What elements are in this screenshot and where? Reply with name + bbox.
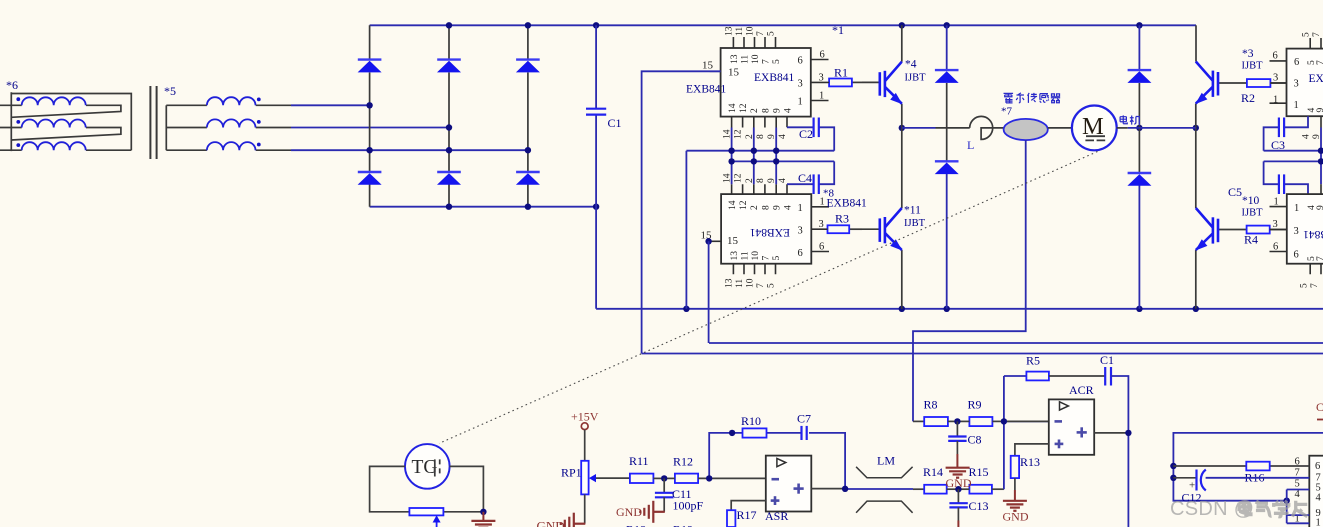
svg-text:C13: C13	[969, 499, 989, 513]
svg-text:B841: B841	[1303, 228, 1323, 240]
net wire to right edge	[1173, 433, 1323, 501]
svg-text:14: 14	[728, 200, 738, 210]
svg-text:4: 4	[783, 108, 793, 113]
svg-text:1: 1	[1294, 203, 1299, 214]
resistor R4	[1247, 226, 1270, 234]
U4 left pin stubs 1 3 6	[1270, 207, 1287, 252]
svg-text:12: 12	[734, 129, 744, 139]
resistor R5	[1004, 375, 1027, 377]
wire phase input row1	[0, 105, 121, 117]
svg-text:3: 3	[798, 79, 803, 90]
svg-text:R5: R5	[1026, 354, 1040, 368]
diode D4	[358, 172, 382, 185]
diode D2	[437, 60, 461, 73]
diode leg right wire	[1138, 25, 1140, 70]
svg-text:4: 4	[1316, 493, 1322, 504]
svg-text:6: 6	[1315, 461, 1320, 472]
ASR plus input wire	[731, 501, 766, 511]
diode D8	[935, 161, 959, 174]
svg-text:R17: R17	[737, 508, 757, 522]
resistor R1	[852, 81, 862, 83]
svg-text:5: 5	[772, 256, 782, 261]
watermark CSDN	[1170, 498, 1307, 520]
svg-text:EXB841: EXB841	[750, 226, 791, 238]
node dots bridge	[366, 22, 599, 210]
secondary row3 lead	[166, 149, 291, 151]
U1 top pin numbers outside	[725, 26, 777, 36]
transistor *10 IGBT	[1195, 195, 1263, 251]
wire motor to legs	[1117, 127, 1128, 129]
svg-text:R2: R2	[1241, 91, 1255, 105]
svg-text:R1: R1	[834, 66, 848, 80]
U1 bottom pin numbers outside	[723, 129, 788, 139]
svg-text:3: 3	[798, 226, 803, 237]
svg-text:7: 7	[1316, 256, 1323, 261]
capacitor C12 electrolytic	[1197, 470, 1206, 491]
core bars	[150, 86, 156, 159]
svg-text:R8: R8	[924, 398, 938, 412]
phase wire A to leg1	[291, 104, 370, 106]
svg-text:10: 10	[751, 251, 761, 261]
svg-text:8: 8	[761, 108, 771, 113]
U1 right pin stubs 6 3 1	[811, 60, 829, 101]
secondary row1 lead	[166, 104, 291, 106]
svg-text:9: 9	[1316, 108, 1323, 113]
svg-text:5: 5	[767, 31, 777, 36]
U3 bottom pin stubs	[1320, 116, 1322, 127]
svg-text:C: C	[1316, 400, 1323, 414]
svg-text:15: 15	[727, 235, 739, 247]
ASR feedback loop	[709, 433, 845, 489]
top rail right corner drop	[1195, 25, 1197, 61]
svg-text:R19: R19	[673, 523, 693, 527]
svg-text:C1: C1	[608, 116, 622, 130]
ACR output	[1094, 432, 1128, 434]
ASR output wire	[811, 488, 845, 490]
ground C8	[956, 441, 958, 454]
svg-text:LM: LM	[877, 454, 895, 468]
svg-text:10: 10	[746, 26, 756, 36]
long wire B	[642, 353, 1323, 355]
node dot TG	[480, 509, 486, 515]
svg-text:2: 2	[750, 108, 760, 113]
svg-text:6: 6	[798, 56, 803, 67]
svg-text:6: 6	[1273, 242, 1278, 253]
svg-text:8: 8	[761, 205, 771, 210]
capacitor C8	[956, 421, 958, 436]
svg-text:TG: TG	[412, 457, 438, 478]
svg-text:EXB841: EXB841	[686, 84, 727, 96]
wire phase input row3	[0, 149, 131, 151]
svg-text:*11: *11	[904, 205, 921, 217]
svg-text:R18: R18	[626, 523, 646, 527]
svg-text:1: 1	[1274, 197, 1279, 208]
svg-text:EXB841: EXB841	[754, 72, 795, 84]
polarity dot S3	[257, 143, 261, 147]
U4 top pin stub	[1320, 184, 1322, 194]
phase wire B to leg2	[291, 127, 449, 129]
hall sensor ellipse *7	[1004, 119, 1048, 140]
motor M circle	[1072, 106, 1117, 151]
svg-text:7: 7	[1310, 283, 1320, 288]
svg-text:IJBT: IJBT	[905, 73, 927, 84]
svg-text:6: 6	[1294, 57, 1299, 68]
svg-text:1: 1	[1316, 518, 1321, 527]
resistor R9	[969, 417, 992, 426]
IGBT leg right wire	[1195, 104, 1197, 309]
resistor R2	[1247, 79, 1271, 87]
op-amp ACR box	[1049, 399, 1094, 454]
wire phase input row2	[0, 128, 121, 141]
ground R13	[1014, 478, 1016, 490]
svg-text:3: 3	[819, 219, 824, 230]
op chip U2 EXB841 box (flipped)	[721, 194, 811, 264]
DC bottom rail	[596, 308, 1323, 310]
svg-text:10: 10	[746, 278, 756, 288]
svg-text:6: 6	[1294, 250, 1299, 261]
svg-text:R12: R12	[673, 455, 693, 469]
svg-text:+15V: +15V	[571, 410, 599, 424]
svg-text:11: 11	[741, 55, 751, 64]
svg-text:4: 4	[778, 134, 788, 139]
svg-text:12: 12	[734, 173, 744, 183]
svg-text:13: 13	[730, 251, 740, 261]
svg-text:15: 15	[728, 67, 740, 79]
winding P2	[22, 120, 86, 128]
mechanical coupling dashed line	[439, 152, 1097, 444]
diode D7	[935, 70, 959, 83]
svg-text:7: 7	[756, 31, 766, 36]
svg-text:13: 13	[730, 54, 740, 64]
winding S1	[207, 97, 256, 105]
resistor R8	[913, 420, 924, 422]
svg-text:1: 1	[1273, 95, 1278, 106]
svg-text:5: 5	[767, 283, 777, 288]
svg-text:11: 11	[735, 279, 745, 288]
U1 bottom pin numbers inside	[728, 103, 793, 113]
inductor L loop	[970, 116, 1004, 139]
U2 top pin numbers inside	[728, 200, 793, 210]
svg-text:GND: GND	[1003, 510, 1029, 524]
op chip U5 box (cut)	[1309, 456, 1323, 527]
diode D3	[516, 60, 540, 73]
bridge leg 1 wire	[369, 25, 371, 206]
svg-text:3: 3	[1294, 226, 1299, 237]
svg-text:1: 1	[1294, 100, 1299, 111]
capacitor C13	[957, 489, 959, 503]
diode D1	[358, 60, 382, 73]
transformer T1 primary frame	[11, 92, 131, 151]
svg-text:*4: *4	[905, 59, 917, 71]
secondary row2 lead	[166, 127, 291, 129]
pin6 wire with resistor R16	[1173, 465, 1246, 467]
svg-text:6: 6	[820, 50, 825, 61]
capacitor C3 loop	[1264, 116, 1308, 151]
U1 bottom pin stubs	[732, 117, 787, 128]
svg-text:7: 7	[756, 283, 766, 288]
label motor	[1120, 115, 1140, 124]
svg-text:L: L	[967, 138, 974, 152]
resistor R17	[727, 510, 735, 527]
winding S3	[207, 142, 256, 150]
wire U2 pin15 drop	[708, 241, 710, 343]
U2 top pin stubs	[732, 184, 787, 194]
svg-text:15: 15	[702, 60, 714, 72]
polarity dot S2	[257, 120, 261, 124]
U3 top pin stubs	[1310, 38, 1321, 49]
svg-text:11: 11	[741, 251, 751, 260]
svg-text:R14: R14	[923, 465, 943, 479]
freewheel leg left wire	[946, 25, 948, 70]
op chip U3 EXB841 box	[1287, 49, 1323, 117]
pin7 wire	[1206, 477, 1310, 479]
U2 bottom pin stubs	[733, 264, 775, 275]
capacitor C1b	[1105, 367, 1111, 386]
wire ACR plus input	[1015, 444, 1049, 456]
svg-text:4: 4	[778, 178, 788, 183]
capacitor C1 plates	[586, 109, 606, 115]
svg-text:*5: *5	[164, 84, 176, 98]
svg-text:6: 6	[1273, 51, 1278, 62]
svg-text:R9: R9	[968, 398, 982, 412]
svg-text:RP1: RP1	[561, 466, 582, 480]
svg-text:2: 2	[750, 205, 760, 210]
op-amp ASR box	[766, 456, 812, 512]
op chip U4 EXB841 box (flipped)	[1287, 194, 1323, 264]
resistor R3	[849, 228, 862, 230]
potentiometer RP2 body	[409, 508, 443, 515]
node dots C12 net	[1170, 463, 1290, 504]
svg-text:EXB: EXB	[1309, 73, 1323, 85]
label hall	[1004, 93, 1061, 103]
transistor *11 IGBT	[862, 205, 926, 251]
U2 top pin numbers outside	[723, 173, 788, 183]
U5 pin stub labels	[1295, 457, 1301, 525]
svg-text:100pF: 100pF	[673, 499, 704, 513]
svg-text:7: 7	[762, 256, 772, 261]
pin 4/9/1 bracket	[1287, 490, 1310, 524]
bridge leg 3 wire	[527, 25, 529, 206]
svg-text:*3: *3	[1242, 48, 1254, 60]
ground TG	[482, 512, 484, 521]
U3 left pin stubs 6 3 1	[1270, 61, 1287, 103]
winding P1	[22, 97, 86, 105]
svg-text:5: 5	[1301, 32, 1311, 37]
resistor R12	[675, 474, 698, 483]
polarity dot P1	[16, 97, 20, 101]
svg-text:4: 4	[1295, 489, 1301, 500]
svg-text:7: 7	[762, 59, 772, 64]
resistor R15	[969, 485, 992, 494]
svg-text:4: 4	[783, 205, 793, 210]
svg-text:GND: GND	[616, 505, 642, 519]
svg-text:R15: R15	[969, 465, 989, 479]
U2 right pin stubs 1 3 6	[811, 207, 829, 252]
U2 bottom pin numbers outside	[725, 278, 777, 288]
svg-text:R3: R3	[835, 212, 849, 226]
diode D9	[1127, 70, 1151, 83]
svg-text:13: 13	[725, 278, 735, 288]
bus row dots	[705, 148, 779, 245]
svg-text:GND: GND	[537, 519, 565, 527]
svg-text:R10: R10	[741, 414, 761, 428]
svg-text:3: 3	[1294, 79, 1299, 90]
svg-text:8: 8	[756, 134, 766, 139]
capacitor C5 loop	[1264, 161, 1308, 194]
pin bus verticals between U1/U2	[732, 128, 777, 185]
svg-text:R13: R13	[1020, 455, 1040, 469]
long wire A	[709, 342, 1323, 344]
right bus rows	[1264, 151, 1323, 162]
svg-text:9: 9	[773, 205, 783, 210]
svg-text:3: 3	[819, 73, 824, 84]
svg-text:1: 1	[819, 91, 824, 102]
DC top rail	[370, 24, 1196, 26]
svg-text:EXB841: EXB841	[827, 198, 868, 210]
svg-text:ACR: ACR	[1069, 383, 1094, 397]
op chip U1 EXB841 box	[721, 48, 811, 117]
svg-text:7: 7	[1312, 32, 1322, 37]
svg-text:4: 4	[1301, 134, 1311, 139]
svg-text:12: 12	[739, 200, 749, 210]
svg-text:8: 8	[756, 178, 766, 183]
svg-text:1: 1	[798, 203, 803, 214]
svg-text:R11: R11	[629, 454, 649, 468]
svg-text:C5: C5	[1228, 185, 1242, 199]
svg-text:C1: C1	[1100, 353, 1114, 367]
polarity dot S1	[257, 98, 261, 102]
bridge leg 2 wire	[448, 25, 450, 206]
U1 pin 15 stub	[710, 70, 721, 72]
svg-text:3: 3	[1273, 219, 1278, 230]
U1 top pin stubs	[733, 37, 775, 48]
svg-text:*7: *7	[1001, 106, 1013, 118]
diode D10	[1127, 173, 1151, 186]
svg-text:9: 9	[1316, 205, 1323, 210]
svg-text:ASR: ASR	[765, 509, 788, 523]
svg-text:3: 3	[1273, 73, 1278, 84]
svg-text:*1: *1	[832, 23, 844, 37]
bus row 1	[686, 151, 834, 309]
capacitor C1 leg wire	[595, 25, 597, 309]
resistor R10	[743, 428, 767, 437]
capacitor C11	[663, 478, 665, 492]
wire mid rail	[902, 127, 936, 129]
node dots H-bridge rails	[683, 22, 1199, 312]
wire hall feedback	[913, 140, 1026, 421]
wire hall to motor	[1048, 127, 1072, 129]
diode D5	[437, 172, 461, 185]
capacitor C7	[802, 426, 807, 440]
svg-text:IJBT: IJBT	[904, 218, 926, 229]
U1 top pin numbers inside	[730, 54, 782, 64]
TG loop wires	[370, 466, 484, 511]
svg-text:*6: *6	[6, 78, 18, 92]
diode D6	[516, 172, 540, 185]
U2 pin 15 stub	[709, 240, 722, 242]
svg-text:7: 7	[1295, 468, 1300, 479]
svg-text:5: 5	[772, 59, 782, 64]
svg-text:C2: C2	[799, 127, 813, 141]
U2 bottom pin numbers inside	[730, 251, 782, 261]
U4 bottom pin stubs	[1310, 264, 1321, 275]
svg-text:5: 5	[1299, 283, 1309, 288]
svg-text:9: 9	[773, 108, 783, 113]
transistor *3 IGBT	[1195, 48, 1263, 104]
bridge bottom rail	[370, 206, 596, 208]
tachogenerator TG	[405, 444, 450, 489]
node dot R11/R12	[661, 475, 667, 481]
svg-text:R4: R4	[1244, 233, 1258, 247]
RP2 wiper arrow	[433, 515, 441, 522]
resistor R13	[1011, 456, 1019, 478]
svg-text:7: 7	[1316, 60, 1323, 65]
svg-text:14: 14	[728, 103, 738, 113]
phase wire C to leg3	[291, 149, 528, 151]
svg-text:12: 12	[739, 103, 749, 113]
transistor *4 IGBT	[862, 59, 926, 105]
polarity dot P3	[16, 143, 20, 147]
svg-text:C4: C4	[798, 171, 812, 185]
ACR minus node	[1004, 376, 1049, 489]
potentiometer RP1	[581, 461, 588, 495]
svg-text:6: 6	[819, 242, 824, 253]
bus row 2	[732, 160, 835, 162]
svg-text:IJBT: IJBT	[1242, 61, 1264, 72]
IGBT leg left wire	[901, 25, 903, 309]
svg-text:C8: C8	[968, 433, 982, 447]
capacitor C2 loop	[787, 127, 834, 150]
svg-text:13: 13	[725, 26, 735, 36]
svg-text:IJBT: IJBT	[1242, 208, 1264, 219]
svg-text:C7: C7	[797, 412, 811, 426]
svg-text:10: 10	[751, 54, 761, 64]
svg-text:*10: *10	[1242, 195, 1260, 207]
RP1 ground	[584, 494, 586, 523]
svg-text:6: 6	[798, 248, 803, 259]
resistor R11	[630, 474, 654, 483]
winding P3	[22, 142, 86, 150]
resistor R14	[924, 485, 947, 494]
capacitor C4 loop	[787, 161, 834, 184]
secondary star frame	[165, 105, 167, 150]
svg-text:GND: GND	[946, 476, 972, 490]
right bus vertical pin9	[1320, 128, 1322, 185]
svg-text:11: 11	[735, 27, 745, 36]
svg-text:1: 1	[798, 97, 803, 108]
polarity dot P2	[16, 120, 20, 124]
svg-text:5: 5	[1295, 479, 1300, 490]
winding S2	[207, 119, 256, 127]
wire U1 pin15 drop	[642, 71, 721, 353]
